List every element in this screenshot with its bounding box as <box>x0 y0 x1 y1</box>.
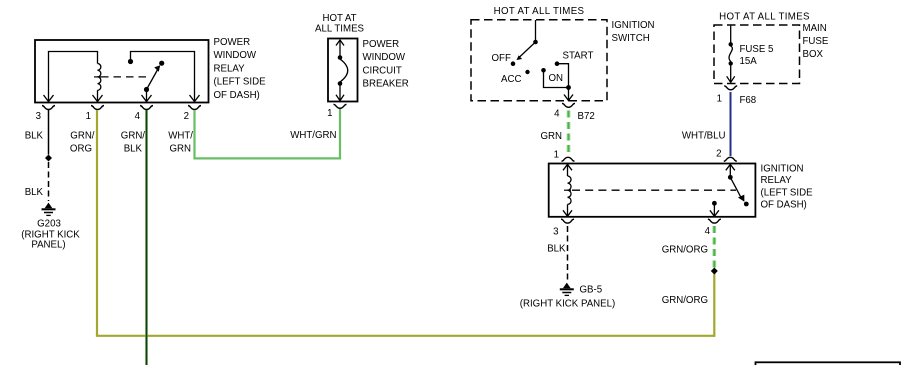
svg-text:BLK: BLK <box>124 144 143 155</box>
svg-text:FUSE 5: FUSE 5 <box>740 44 774 55</box>
svg-text:4: 4 <box>554 109 560 120</box>
label GRN/BLK pin4 <box>121 131 146 155</box>
blade arrowhead (K2) <box>738 195 744 202</box>
svg-text:GRN: GRN <box>169 144 191 155</box>
wire: START to junction <box>557 64 569 88</box>
ignition switch pin 4 cup <box>562 103 575 107</box>
blade arrowhead OFF <box>517 55 523 60</box>
ignition switch S1 dashed box <box>471 20 607 101</box>
node: K1 blade pivot dot <box>144 87 149 92</box>
svg-text:ORG: ORG <box>70 144 92 155</box>
ignition relay pin2 top cup <box>724 157 737 161</box>
breaker pin 1 cup <box>334 104 347 108</box>
ignition switch exit arrow <box>564 88 573 101</box>
wire WHT/GRN from K1 pin2 to breaker <box>195 109 341 160</box>
breaker name label <box>363 39 409 90</box>
relay K2 label <box>761 164 814 211</box>
main fuse box label <box>803 23 829 60</box>
pin 4 arrow (K1) <box>142 90 152 102</box>
svg-text:(LEFT SIDE: (LEFT SIDE <box>761 187 814 198</box>
node: K1 fixed contact dot <box>128 59 133 64</box>
label GRN/ORG pin1 <box>70 131 95 155</box>
label WHT/GRN pin2 <box>168 131 193 155</box>
svg-text:1: 1 <box>86 111 91 122</box>
svg-text:RELAY: RELAY <box>761 175 793 186</box>
svg-text:BLK: BLK <box>25 187 44 198</box>
svg-text:GRN/: GRN/ <box>70 131 95 142</box>
svg-text:GRN: GRN <box>540 131 562 142</box>
wire BLK dashed from K2 pin3 <box>567 226 569 280</box>
blade arrowhead (K1) <box>154 65 160 72</box>
wire GRN/ORG long horizontal <box>96 335 714 337</box>
svg-text:ALL TIMES: ALL TIMES <box>315 23 365 34</box>
coil of relay K2 <box>568 176 572 204</box>
ignition relay pin1 top cup <box>562 157 575 161</box>
svg-text:ON: ON <box>549 73 564 84</box>
svg-text:1: 1 <box>554 150 559 161</box>
svg-text:BLK: BLK <box>547 244 566 255</box>
svg-text:OF DASH): OF DASH) <box>761 200 807 211</box>
pin 2 arrow (K1) <box>190 95 200 102</box>
node: K2 blade contact dot <box>744 202 749 207</box>
svg-text:FUSE: FUSE <box>803 36 829 47</box>
svg-text:GRN/ORG: GRN/ORG <box>662 295 708 306</box>
node: ACC contact dot <box>525 70 529 74</box>
wire BLK from pin 3 <box>48 110 50 155</box>
switch blade (K2) <box>730 177 742 199</box>
wire: ignition switch feed <box>535 20 537 40</box>
wire GRN/BLK from K1 pin4 <box>145 110 148 365</box>
wire GRN/ORG from K1 pin1 (vertical) <box>96 110 98 336</box>
svg-text:15A: 15A <box>740 56 758 67</box>
svg-text:F68: F68 <box>740 95 757 106</box>
svg-text:(RIGHT KICK PANEL): (RIGHT KICK PANEL) <box>520 298 615 309</box>
pin 2 connector cup <box>188 106 201 110</box>
svg-text:RELAY: RELAY <box>214 63 246 74</box>
svg-text:OF DASH): OF DASH) <box>214 90 260 101</box>
svg-text:(LEFT SIDE: (LEFT SIDE <box>214 77 267 88</box>
mechanical linkage dashed (K2) <box>572 189 736 191</box>
svg-text:WHT/BLU: WHT/BLU <box>682 130 726 141</box>
svg-text:WHT/: WHT/ <box>168 131 193 142</box>
pin 4 connector cup <box>140 106 153 110</box>
relay K2: IGNITION RELAY box <box>549 164 756 217</box>
mechanical linkage dashed (K1) <box>101 76 151 78</box>
node: splice diamond GRN/ORG <box>711 268 718 275</box>
circuit breaker CB box <box>328 39 358 102</box>
svg-text:4: 4 <box>135 111 141 122</box>
pin 3 connector cup <box>42 106 55 110</box>
svg-text:GB-5: GB-5 <box>580 285 603 296</box>
relay K1: POWER WINDOW RELAY box <box>35 40 209 103</box>
wire GRN/ORG right vertical up to splice <box>713 271 715 337</box>
svg-text:1: 1 <box>717 94 722 105</box>
label HOT AT ALL TIMES (breaker) <box>315 13 365 34</box>
pin 4 arrow (K2) <box>710 203 719 216</box>
node: feed dot <box>533 40 538 45</box>
circuit breaker symbol <box>336 40 348 101</box>
pin 2 arrow (K2) <box>726 164 735 176</box>
svg-text:3: 3 <box>36 111 41 122</box>
node: splice diamond on BLK <box>45 155 52 162</box>
svg-text:2: 2 <box>716 149 721 160</box>
ignition switch label <box>612 20 655 44</box>
svg-text:B72: B72 <box>578 111 595 122</box>
wire: K1 internal contact to pin2 <box>131 52 195 102</box>
svg-text:BLK: BLK <box>25 131 44 142</box>
svg-text:2: 2 <box>184 111 189 122</box>
wire: ON to junction <box>544 70 569 87</box>
node: ON contact dot <box>541 68 546 73</box>
svg-text:GRN/: GRN/ <box>121 131 146 142</box>
pin 3 arrow (K2) <box>563 204 572 216</box>
svg-text:3: 3 <box>553 227 558 238</box>
label (RIGHT KICK PANEL) <box>21 230 80 251</box>
svg-text:PANEL): PANEL) <box>31 240 65 251</box>
coil tick (K1) <box>94 76 101 78</box>
coil tick (K2) <box>564 189 571 191</box>
svg-text:G203: G203 <box>37 219 61 230</box>
pin 3 arrow (K1) <box>44 95 54 102</box>
svg-text:WINDOW: WINDOW <box>214 50 257 61</box>
switch blade to OFF <box>519 42 536 58</box>
wire GRN/ORG dashed from K2 pin4 <box>712 226 716 268</box>
svg-text:IGNITION: IGNITION <box>761 164 804 175</box>
pin 1 arrow (K2) <box>563 164 572 176</box>
svg-text:POWER: POWER <box>363 39 400 50</box>
svg-text:WHT/GRN: WHT/GRN <box>290 130 336 141</box>
svg-text:START: START <box>563 51 594 62</box>
svg-text:MAIN: MAIN <box>803 23 827 34</box>
node: OFF contact dot <box>511 61 516 66</box>
ground GB-5 symbol <box>560 283 574 296</box>
coil L1 of relay K1 <box>98 64 101 102</box>
svg-text:IGNITION: IGNITION <box>612 20 655 31</box>
svg-text:1: 1 <box>327 108 332 119</box>
wire BLK dashed to ground <box>48 162 50 201</box>
title block box (partial) <box>756 362 901 370</box>
svg-text:SWITCH: SWITCH <box>612 33 650 44</box>
switch blade (K1) <box>147 68 159 90</box>
node: K2 pin4 contact dot <box>712 201 717 206</box>
svg-text:HOT AT ALL TIMES: HOT AT ALL TIMES <box>719 12 810 23</box>
main fuse box dashed box <box>714 25 800 84</box>
svg-text:POWER: POWER <box>214 37 251 48</box>
K2 pin 3 cup <box>561 219 574 223</box>
svg-text:CIRCUIT: CIRCUIT <box>363 65 402 76</box>
node: junction dot <box>566 85 571 90</box>
svg-text:GRN/ORG: GRN/ORG <box>662 244 708 255</box>
pin 1 connector cup <box>91 106 104 110</box>
fuse pin 1 cup <box>724 86 737 90</box>
K2 pin 4 cup <box>708 219 721 223</box>
svg-text:WINDOW: WINDOW <box>363 52 406 63</box>
ground G203 symbol <box>42 203 56 216</box>
svg-text:OFF: OFF <box>492 53 511 64</box>
node: START contact dot <box>555 61 560 66</box>
svg-text:BOX: BOX <box>803 49 824 60</box>
fuse F5 symbol <box>727 26 735 83</box>
wire WHT/BLU <box>730 92 732 156</box>
svg-text:4: 4 <box>705 226 711 237</box>
pin 1 arrow (K1) <box>93 95 103 102</box>
wire GRN dashed <box>567 111 571 157</box>
relay K1 label <box>214 37 267 101</box>
node: K1 blade contact dot <box>159 61 164 66</box>
node: K2 blade pivot dot <box>728 175 733 180</box>
svg-text:HOT AT ALL TIMES: HOT AT ALL TIMES <box>494 6 585 17</box>
svg-text:ACC: ACC <box>501 74 521 85</box>
svg-text:BREAKER: BREAKER <box>363 79 409 90</box>
wire: K1 internal pin3 to coil <box>49 52 98 102</box>
